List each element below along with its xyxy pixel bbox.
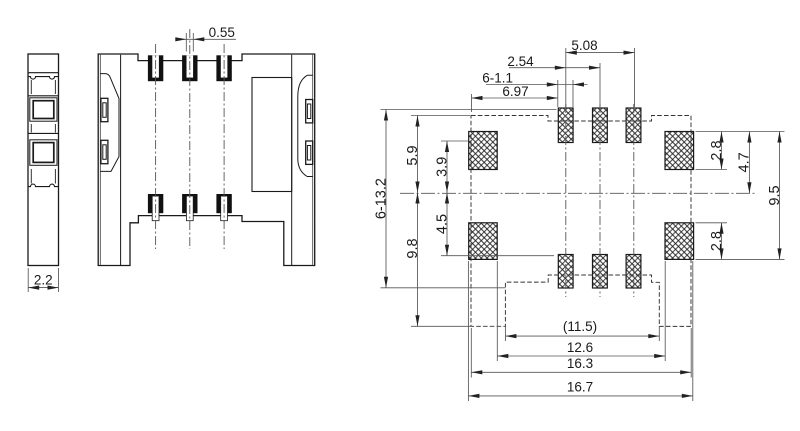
front view bottom pin 1 xyxy=(148,194,163,221)
dimension 9.8 xyxy=(405,193,421,327)
front view right panel window 2 xyxy=(306,141,313,164)
svg-text:9.5: 9.5 xyxy=(767,185,783,205)
svg-text:6.97: 6.97 xyxy=(502,84,528,99)
dimension 3.9 xyxy=(434,141,450,193)
dimension 6.97 xyxy=(472,84,558,100)
front view left panel window 2 xyxy=(101,140,108,163)
dimension 5.08 xyxy=(566,38,635,55)
dimension 16.7 xyxy=(468,380,692,398)
dimension 4.5 xyxy=(434,193,450,256)
footprint bottom pad 2 xyxy=(593,255,608,289)
front view right panel window 1 xyxy=(306,100,313,123)
front view top pin 2 xyxy=(182,55,197,81)
dimension (11.5) xyxy=(505,319,659,338)
side view horizontal partition lines xyxy=(28,73,59,134)
dimension 6-1.1 xyxy=(482,71,587,87)
svg-text:2.54: 2.54 xyxy=(507,54,534,69)
front view column lines xyxy=(121,55,292,265)
dimension 2.2 xyxy=(28,268,58,292)
front view body outline xyxy=(98,54,315,266)
dimension 2.54 xyxy=(507,54,600,70)
footprint bottom pad 3 xyxy=(626,255,641,289)
svg-text:2.2: 2.2 xyxy=(34,272,53,287)
front view left panel outline xyxy=(100,74,119,172)
front view bottom pin 2 xyxy=(182,194,197,221)
svg-text:0.55: 0.55 xyxy=(209,25,235,40)
front view pin center lines xyxy=(156,29,225,249)
footprint bottom pad 1 xyxy=(558,255,573,289)
front view inner edge lines xyxy=(100,55,312,265)
dimension 12.6 xyxy=(497,340,665,358)
side view inner edge lines xyxy=(31,80,55,184)
svg-text:4.7: 4.7 xyxy=(737,152,753,172)
svg-text:3.9: 3.9 xyxy=(434,157,450,177)
footprint pad column center lines xyxy=(566,104,634,297)
footprint corner pad top-right xyxy=(665,132,694,170)
footprint extension lines xyxy=(381,48,785,401)
footprint dashed body outline xyxy=(471,116,691,327)
footprint top pad 3 xyxy=(626,108,641,143)
dimension 6-13.2 xyxy=(373,110,389,288)
svg-text:9.8: 9.8 xyxy=(405,238,421,258)
dimension 2.8 bottom xyxy=(709,223,725,260)
front view right panel outline xyxy=(298,75,313,176)
front view bottom pin 3 xyxy=(216,194,231,221)
dimension 16.3 xyxy=(471,356,691,374)
svg-text:5.08: 5.08 xyxy=(571,38,597,53)
side view body outline xyxy=(28,54,59,266)
svg-text:(11.5): (11.5) xyxy=(563,319,597,334)
svg-text:2.8: 2.8 xyxy=(709,231,725,251)
front view top pin 1 xyxy=(148,55,163,81)
dimension 0.55 xyxy=(175,25,236,51)
footprint corner pad top-left xyxy=(469,132,498,170)
footprint corner pad bottom-right xyxy=(665,223,694,260)
footprint top pad 1 xyxy=(558,108,573,143)
front view left panel window 1 xyxy=(101,98,108,121)
front view top pin 3 xyxy=(216,55,231,81)
footprint horizontal center line xyxy=(400,192,756,194)
svg-text:4.5: 4.5 xyxy=(434,214,450,234)
footprint top pad 2 xyxy=(593,108,608,143)
side view contact box 2 xyxy=(30,140,57,166)
footprint corner pad bottom-left xyxy=(469,223,498,260)
svg-text:16.3: 16.3 xyxy=(567,356,593,371)
svg-text:5.9: 5.9 xyxy=(405,145,421,165)
side view bottom hook line xyxy=(28,184,59,186)
svg-text:16.7: 16.7 xyxy=(567,380,593,395)
front view card cavity rectangle xyxy=(252,78,292,192)
dimension 4.7 xyxy=(737,132,753,194)
svg-text:6-13.2: 6-13.2 xyxy=(373,178,389,219)
side view contact box 1 xyxy=(30,98,57,121)
side view top hook line xyxy=(28,77,59,80)
svg-text:12.6: 12.6 xyxy=(567,340,593,355)
dimension 9.5 xyxy=(767,132,783,260)
dimension 5.9 xyxy=(405,116,421,193)
svg-text:2.8: 2.8 xyxy=(709,140,725,160)
dimension 2.8 top xyxy=(709,132,725,170)
